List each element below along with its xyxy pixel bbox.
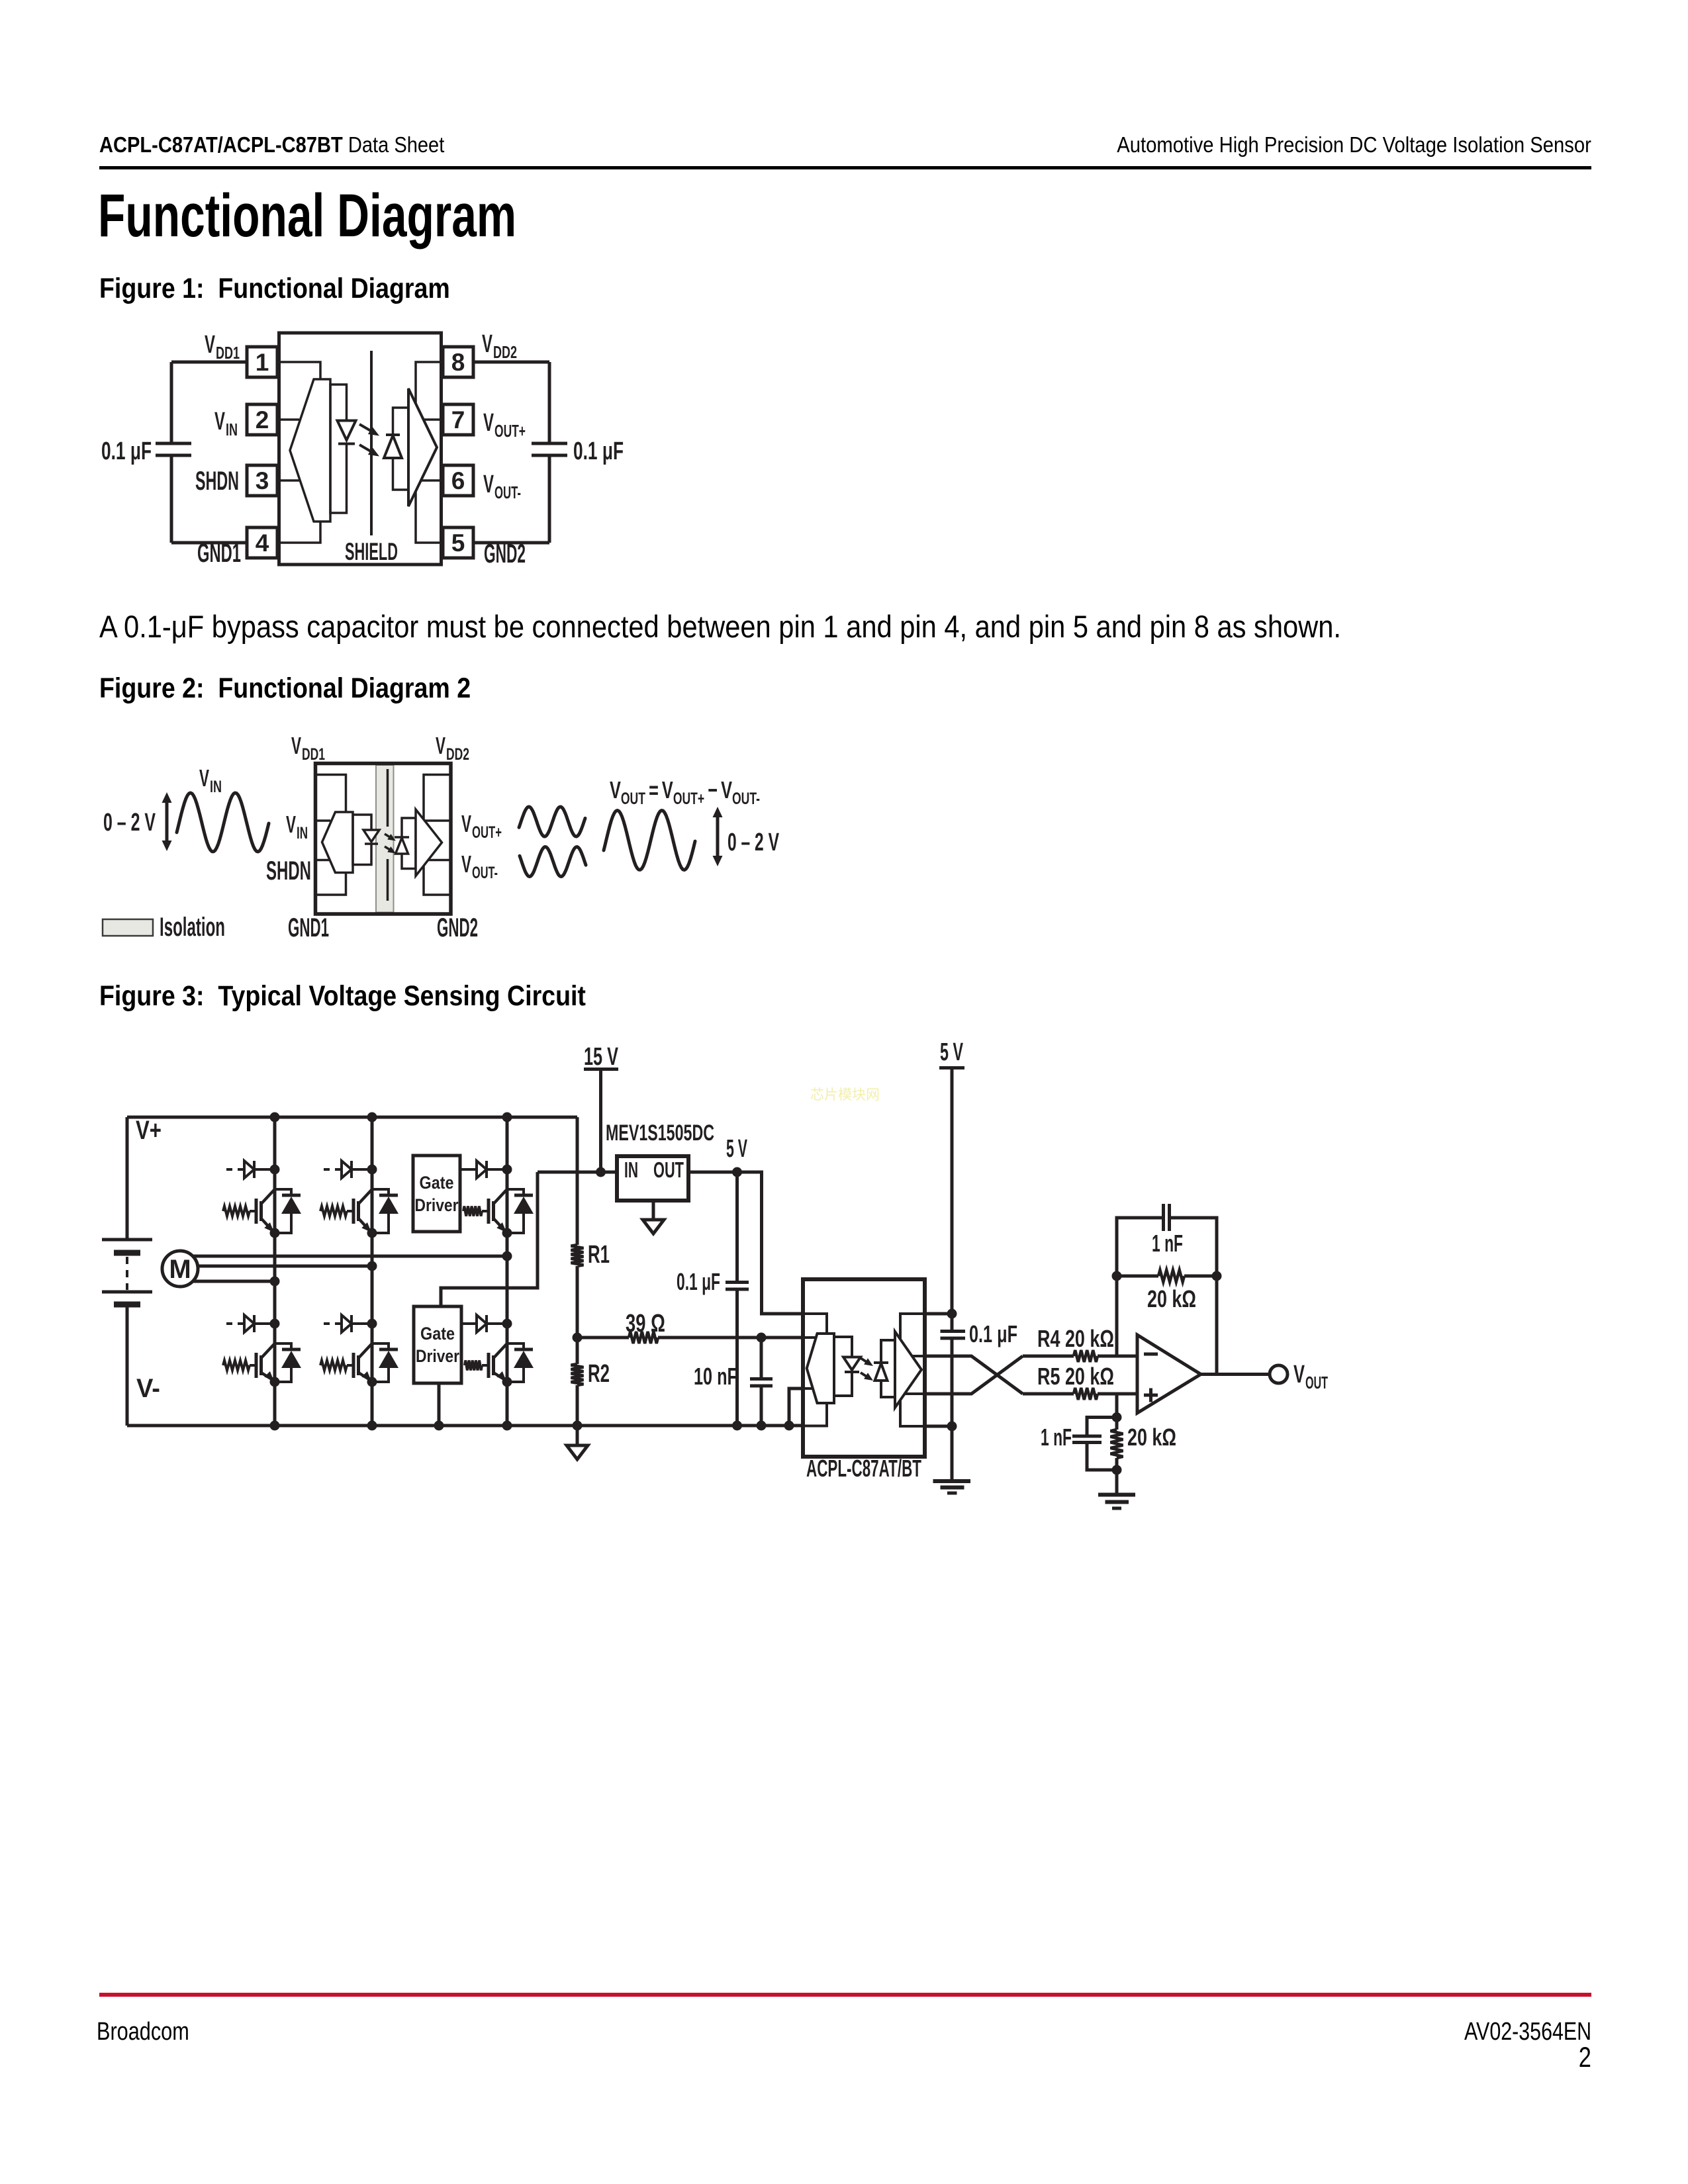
input range label 0-2V <box>103 809 156 837</box>
wire GND2 internal (fig2) <box>424 866 449 895</box>
svg-text:IN: IN <box>226 420 238 439</box>
svg-text:Gate: Gate <box>420 1173 454 1193</box>
node feedback left <box>1112 1271 1122 1281</box>
pin 8 <box>443 347 473 377</box>
motor phase wire B (to leg2) <box>198 1265 372 1268</box>
wire pin6 internal <box>421 479 440 482</box>
svg-text:GND1: GND1 <box>197 539 241 568</box>
svg-text:DD2: DD2 <box>446 745 469 764</box>
wire pin7 internal <box>424 418 440 421</box>
node non-inverting RC top <box>1112 1412 1122 1422</box>
V+ rail wire (top) <box>127 1116 577 1119</box>
svg-text:0 – 2 V: 0 – 2 V <box>727 829 779 856</box>
isolation legend label <box>160 913 225 942</box>
svg-text:ACPL-C87AT/BT: ACPL-C87AT/BT <box>806 1455 921 1482</box>
optical arrow 1 <box>359 424 379 436</box>
svg-text:5 V: 5 V <box>940 1038 963 1066</box>
svg-text:7: 7 <box>451 406 465 433</box>
shield line <box>370 351 373 535</box>
svg-text:V: V <box>483 471 494 498</box>
net label GND1 <box>197 539 241 568</box>
wire VDD1 internal (fig2) <box>317 775 346 813</box>
half-bridge leg 3 vertical wire <box>506 1117 509 1426</box>
header rule <box>99 166 1591 169</box>
svg-text:GND2: GND2 <box>437 913 478 942</box>
freewheel diode Q3 (leg2 top) <box>372 1189 399 1233</box>
DC-DC converter U4 MEV1S1505DC <box>617 1156 688 1201</box>
LED drive rectangle <box>330 385 347 513</box>
sigma-delta modulator symbol (fig2) <box>322 812 353 873</box>
wire op-amp output <box>1201 1373 1270 1376</box>
gate clamp diode Q5 (leg3 top) <box>460 1161 512 1178</box>
svg-text:5: 5 <box>451 529 465 557</box>
photodiode (fig2) <box>395 837 409 854</box>
wire VOUT+ internal (fig2) <box>424 819 449 822</box>
figure 1 caption <box>99 275 450 303</box>
photodiode D2 <box>384 435 402 458</box>
photodiode frame rectangle (U5) <box>881 1340 895 1397</box>
label 5V (near U4) <box>726 1135 747 1163</box>
svg-text:0.1 μF: 0.1 μF <box>101 437 152 465</box>
wire pin1 to C1 <box>171 361 247 364</box>
resistor R2 <box>571 1338 610 1426</box>
svg-text:V: V <box>291 732 301 759</box>
node 5V at U4 output <box>732 1167 742 1177</box>
svg-text:IN: IN <box>624 1158 638 1182</box>
capacitor C3 0.1uF (5V rail) <box>677 1172 749 1426</box>
input sine waveform VIN <box>177 793 269 852</box>
resistor R7 20k (to ground) <box>1111 1418 1177 1471</box>
svg-text:20 kΩ: 20 kΩ <box>1147 1285 1196 1312</box>
wire GND1 internal (fig2) <box>317 873 346 895</box>
net label GND2 (fig2) <box>437 913 478 942</box>
waveform VOUT- small sine <box>520 847 586 877</box>
footer left <box>97 2019 189 2044</box>
net label VIN waveform <box>199 764 222 796</box>
motor phase wire A (to leg3) <box>193 1255 507 1258</box>
label MEV1S1505DC <box>606 1120 714 1146</box>
svg-text:SHDN: SHDN <box>195 467 239 496</box>
ground symbol below R2 <box>567 1426 588 1459</box>
figure 3 caption <box>99 982 586 1011</box>
node GND2 junction <box>947 1422 957 1432</box>
svg-text:芯片模块网: 芯片模块网 <box>810 1087 880 1103</box>
svg-text:V: V <box>436 732 445 759</box>
svg-text:V: V <box>461 850 471 878</box>
gate clamp diode Q1 (leg1 top) <box>226 1161 280 1178</box>
freewheel diode Q1 (leg1 top) <box>275 1189 301 1233</box>
svg-text:15 V: 15 V <box>584 1043 618 1071</box>
net label VDD2 (fig2) <box>436 732 469 764</box>
header left <box>99 134 444 156</box>
svg-text:M: M <box>169 1255 191 1284</box>
LED drive rectangle (U5) <box>834 1337 852 1396</box>
svg-text:V: V <box>199 764 209 792</box>
footer rule <box>99 1993 1591 1997</box>
optical arrows (fig2) <box>385 834 396 854</box>
wire VOUT+ with crossover to R5 <box>925 1356 1023 1394</box>
junction dots bottom rail <box>270 1421 767 1431</box>
wire pin3 internal <box>281 479 299 482</box>
page number <box>1579 2044 1591 2072</box>
svg-text:GND2: GND2 <box>484 539 526 569</box>
photodiode frame rectangle <box>393 408 409 490</box>
resistor R3 39ohm and wire to ACPL VIN <box>577 1310 803 1343</box>
svg-text:V: V <box>1293 1361 1305 1388</box>
shield line upper segment <box>387 769 389 827</box>
waveform VOUT+ small sine <box>519 807 585 837</box>
wire pin4 internal to modulator bottom <box>281 522 320 543</box>
gate resistor Q3 (leg2 top) <box>320 1206 353 1216</box>
svg-text:6: 6 <box>451 467 465 494</box>
wire pin1 internal to modulator top <box>281 362 320 379</box>
photodiode frame rectangle (fig2) <box>402 818 416 869</box>
input range arrow <box>162 792 172 851</box>
node VDD2/5V junction <box>947 1309 957 1319</box>
svg-text:GND1: GND1 <box>288 913 329 942</box>
IGBT Q5 (leg3 top) <box>489 1189 512 1238</box>
battery B1 <box>102 1117 152 1426</box>
net label VDD1 <box>205 331 240 363</box>
optical arrows (U5) <box>861 1358 873 1381</box>
svg-text:SHDN: SHDN <box>266 856 311 886</box>
node non-inverting RC bottom <box>1112 1465 1122 1475</box>
SHIELD label <box>345 538 398 565</box>
5V supply rail (right) <box>939 1038 964 1331</box>
gate clamp diode Q2 (leg1 bottom) <box>226 1315 280 1332</box>
wire U4 OUT to ACPL VDD1 <box>688 1172 803 1314</box>
net label VOUT+ (fig2) <box>461 810 502 842</box>
net label VOUT+ <box>483 409 526 441</box>
gate resistor Q1 (leg1 top) <box>223 1206 256 1216</box>
pin 1 <box>247 347 277 377</box>
junction dots top rail <box>270 1113 512 1122</box>
IGBT Q3 (leg2 top) <box>353 1189 377 1238</box>
pin 5 <box>443 527 473 558</box>
feedback resistor R6 20k <box>1117 1270 1217 1312</box>
wire GND2 internal (U5) <box>900 1400 923 1426</box>
pin 6 <box>443 465 473 496</box>
svg-text:R1: R1 <box>588 1241 610 1269</box>
output amplifier triangle (fig1) <box>408 388 437 506</box>
wire pin8 to C2 <box>473 361 549 364</box>
resistor R1 <box>571 1117 610 1338</box>
isolation amplifier U5 ACPL-C87AT/BT outline <box>803 1279 925 1457</box>
shield line lower segment <box>387 859 389 901</box>
half-bridge leg 1 vertical wire <box>273 1117 277 1426</box>
svg-text:MEV1S1505DC: MEV1S1505DC <box>606 1120 714 1146</box>
svg-text:IN: IN <box>297 824 308 842</box>
net label VOUT- <box>483 471 521 502</box>
net label VIN (fig2) <box>286 811 308 842</box>
label VOUT <box>1293 1361 1328 1392</box>
node VIN/10nF junction <box>757 1333 767 1343</box>
svg-text:DD1: DD1 <box>216 343 240 363</box>
wire pin8 internal to amp <box>416 362 440 404</box>
svg-text:V: V <box>461 810 471 837</box>
net label VOUT- (fig2) <box>461 850 498 882</box>
svg-text:V: V <box>482 330 492 358</box>
wire pin5 to C2 <box>473 541 549 545</box>
wire U5 GND2 to ground <box>925 1425 952 1428</box>
gate resistor Q4 (leg2 bottom) <box>320 1361 353 1371</box>
resistor R5 20k <box>1023 1363 1137 1400</box>
gate resistor Q2 (leg1 bottom) <box>223 1361 256 1371</box>
wire VDD2 internal (fig2) <box>424 775 449 820</box>
svg-text:39 Ω: 39 Ω <box>626 1310 665 1338</box>
svg-text:DD2: DD2 <box>493 342 517 362</box>
svg-text:Driver: Driver <box>415 1195 459 1215</box>
svg-text:OUT-: OUT- <box>472 864 498 882</box>
figure 2 caption <box>99 674 471 703</box>
svg-text:1 nF: 1 nF <box>1152 1230 1183 1257</box>
wire SHDN internal (fig2) <box>317 859 330 862</box>
svg-text:8: 8 <box>451 349 465 376</box>
wire SHDN internal (U5) <box>803 1387 813 1390</box>
feedback capacitor C6 1nF <box>1117 1204 1217 1276</box>
svg-text:V: V <box>214 408 225 435</box>
LED (fig2) <box>363 830 379 844</box>
svg-text:OUT: OUT <box>1305 1373 1328 1392</box>
gate clamp diode Q3 (leg2 top) <box>324 1161 377 1178</box>
optical arrow 2 <box>359 445 379 457</box>
svg-text:V: V <box>286 811 296 838</box>
capacitor C1 0.1uF (input bypass) <box>101 362 191 543</box>
svg-text:20 kΩ: 20 kΩ <box>1127 1424 1176 1451</box>
freewheel diode Q6 (leg3 bottom) <box>507 1343 534 1382</box>
svg-text:V+: V+ <box>136 1116 162 1145</box>
svg-text:Isolation: Isolation <box>160 913 225 942</box>
svg-text:5 V: 5 V <box>726 1135 747 1163</box>
svg-text:2: 2 <box>256 406 269 433</box>
wire VOUT- internal (U5) <box>904 1392 925 1395</box>
wire 15V to MEV IN <box>538 1171 617 1174</box>
svg-text:OUT+: OUT+ <box>472 823 502 842</box>
photodiode (U5) <box>874 1363 888 1381</box>
svg-text:R2: R2 <box>588 1360 610 1388</box>
svg-text:3: 3 <box>256 467 269 494</box>
isolation barrier strip <box>376 765 394 913</box>
svg-text:10 nF: 10 nF <box>694 1363 737 1390</box>
svg-text:V: V <box>483 409 494 437</box>
wire U3 ground lead <box>434 1383 444 1431</box>
pin 7 <box>443 404 473 435</box>
svg-text:0.1 μF: 0.1 μF <box>677 1268 720 1295</box>
net label GND1 (fig2) <box>288 913 329 942</box>
wire VDD1 internal (U5) <box>805 1314 827 1334</box>
output amplifier triangle (U5) <box>895 1332 921 1408</box>
svg-text:SHIELD: SHIELD <box>345 538 398 565</box>
wire VOUT+ internal (U5) <box>912 1355 925 1357</box>
feedback node wire (inverting input) <box>1115 1276 1119 1356</box>
gate resistor Q5 (leg3 top) <box>463 1206 489 1216</box>
net label VDD1 (fig2) <box>291 732 325 764</box>
resistor R4 20k <box>1023 1325 1137 1362</box>
wire U3 supply from 15V node <box>441 1172 538 1306</box>
wire VOUT- internal (fig2) <box>428 859 449 862</box>
svg-text:Driver: Driver <box>416 1346 459 1366</box>
ground symbol below U4 <box>643 1201 664 1234</box>
svg-text:0.1 μF: 0.1 μF <box>969 1320 1017 1347</box>
header right <box>1117 134 1591 156</box>
capacitor C5 0.1uF (VDD2 bypass) <box>941 1320 1018 1480</box>
svg-text:0.1 μF: 0.1 μF <box>573 437 624 465</box>
svg-text:V-: V- <box>136 1374 160 1403</box>
IGBT Q4 (leg2 bottom) <box>353 1343 377 1387</box>
freewheel diode Q5 (leg3 top) <box>507 1189 534 1233</box>
waveform VOUT large sine <box>604 811 695 870</box>
wire GND1 internal (U5) <box>805 1403 827 1426</box>
pin 2 <box>247 404 277 435</box>
ground symbol (GND2) <box>933 1481 971 1493</box>
op-amp U6 <box>1137 1335 1201 1413</box>
motor M1 <box>162 1251 198 1287</box>
VOUT terminal circle <box>1270 1365 1288 1383</box>
wire U5 VDD2 to 5V rail <box>925 1312 952 1316</box>
gate clamp diode Q6 (leg3 bottom) <box>461 1315 512 1332</box>
V- rail wire (bottom) <box>127 1424 803 1428</box>
label ACPL-C87AT/BT <box>806 1455 921 1482</box>
IGBT Q1 (leg1 top) <box>256 1189 280 1238</box>
wire VOUT- with crossover to R4 <box>925 1356 1023 1394</box>
freewheel diode Q4 (leg2 bottom) <box>372 1343 399 1382</box>
wire non-inverting input to RC <box>1115 1394 1119 1418</box>
svg-text:R4 20 kΩ: R4 20 kΩ <box>1037 1325 1114 1352</box>
page title <box>98 185 516 246</box>
capacitor C7 1nF (to ground) <box>1041 1418 1117 1471</box>
svg-text:OUT: OUT <box>653 1158 684 1182</box>
capacitor C2 0.1uF (output bypass) <box>532 362 624 543</box>
svg-text:R5 20 kΩ: R5 20 kΩ <box>1037 1363 1114 1390</box>
net label VDD2 <box>482 330 517 362</box>
V+ label <box>136 1116 162 1145</box>
half-bridge leg 2 vertical wire <box>371 1117 374 1426</box>
svg-text:OUT+: OUT+ <box>494 421 526 441</box>
svg-text:4: 4 <box>256 529 269 557</box>
svg-text:VOUT = VOUT+ − VOUT-: VOUT = VOUT+ − VOUT- <box>610 776 760 808</box>
wire pin5 internal to amp <box>416 491 440 543</box>
output amplifier triangle (fig2) <box>416 809 442 876</box>
svg-text:DD1: DD1 <box>302 745 325 764</box>
svg-text:V: V <box>205 331 215 359</box>
sigma-delta modulator symbol (input side) <box>290 379 330 522</box>
ground symbol (RC network) <box>1098 1470 1135 1508</box>
node R1/R2 divider tap <box>573 1333 583 1343</box>
svg-text:1: 1 <box>256 349 269 376</box>
IGBT Q6 (leg3 bottom) <box>489 1343 512 1387</box>
gate driver U2 (top) <box>413 1156 460 1232</box>
LED drive rectangle (fig2) <box>353 815 371 865</box>
net label SHDN <box>195 467 239 496</box>
sigma-delta modulator symbol (U5) <box>807 1334 834 1403</box>
IGBT Q2 (leg1 bottom) <box>256 1343 280 1387</box>
svg-text:OUT-: OUT- <box>494 482 521 502</box>
net label VIN <box>214 408 238 439</box>
svg-text:IN: IN <box>210 778 222 796</box>
isolation legend swatch <box>103 919 153 936</box>
pin 3 <box>247 465 277 496</box>
wire VIN internal (fig2) <box>317 819 330 822</box>
wire pin4 to C1 <box>171 541 247 545</box>
wire VIN internal (U5) <box>803 1336 816 1339</box>
node 15V junction <box>596 1167 606 1177</box>
svg-text:Gate: Gate <box>420 1324 455 1343</box>
wire feedback to output <box>1215 1276 1219 1375</box>
svg-text:1 nF: 1 nF <box>1041 1424 1072 1451</box>
LED D1 (emitter) <box>338 421 356 444</box>
gate resistor Q6 (leg3 bottom) <box>465 1361 489 1371</box>
wire SHDN to GND stub <box>789 1388 803 1426</box>
footer right <box>1464 2019 1591 2044</box>
output range arrow <box>713 807 723 866</box>
node SHDN ground junction <box>784 1421 794 1431</box>
gate clamp diode Q4 (leg2 bottom) <box>324 1315 377 1332</box>
net label GND2 <box>484 539 526 569</box>
wire pin2 internal <box>281 418 299 421</box>
IC package outline (fig2) <box>316 764 451 915</box>
node feedback right <box>1212 1271 1222 1281</box>
net label SHDN (fig2) <box>266 856 311 886</box>
gate driver U3 (bottom) <box>414 1306 461 1383</box>
15V supply rail <box>584 1043 618 1172</box>
op-amp U1 package outline (IC body) <box>279 333 442 565</box>
motor phase wire C (to leg1) <box>193 1280 275 1283</box>
V- label <box>136 1374 160 1403</box>
junction dots motor phases <box>270 1251 512 1287</box>
wire VDD2 internal (U5) <box>900 1314 923 1340</box>
output range label 0-2V <box>727 829 779 856</box>
LED (U5) <box>843 1357 861 1373</box>
svg-text:0 – 2 V: 0 – 2 V <box>103 809 156 837</box>
body text <box>99 611 1341 642</box>
freewheel diode Q2 (leg1 bottom) <box>275 1343 301 1382</box>
pin 4 <box>247 527 277 558</box>
capacitor C4 10nF <box>694 1338 773 1426</box>
